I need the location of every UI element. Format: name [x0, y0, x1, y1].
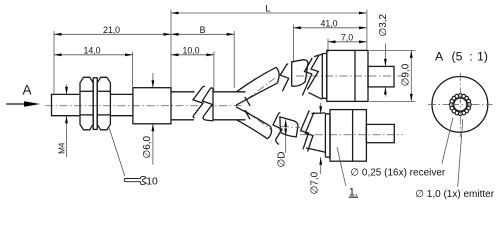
emitter circle	[454, 98, 467, 111]
svg-text:1.: 1.	[349, 187, 358, 199]
svg-text:7,0: 7,0	[341, 32, 353, 42]
svg-text:A: A	[22, 83, 31, 98]
lower branch centerline	[246, 111, 273, 131]
svg-text:B: B	[200, 25, 206, 35]
upper break zigzag d	[307, 56, 318, 90]
extension line x132.6	[132, 52, 134, 87]
upper connector inner line	[354, 50, 356, 101]
dimension DD	[276, 120, 287, 168]
svg-text:41,0: 41,0	[320, 19, 337, 29]
hex nut 1	[80, 77, 93, 130]
lower connector box	[330, 110, 366, 162]
upper cable piece	[292, 60, 308, 87]
upper break zigzag a	[280, 64, 289, 91]
svg-text:∅D: ∅D	[276, 152, 287, 168]
upper boot	[309, 54, 323, 99]
svg-text:10,0: 10,0	[182, 46, 199, 56]
receiver ring	[449, 94, 471, 116]
extension line x328 7,0	[327, 39, 329, 53]
dimension D6,0	[142, 73, 154, 165]
upper connector box	[327, 50, 368, 101]
svg-text:∅7,0: ∅7,0	[310, 171, 321, 194]
washer	[93, 78, 97, 130]
svg-text:∅9,0: ∅9,0	[401, 63, 412, 86]
dimension 7,0	[328, 32, 367, 43]
lower connector centerline	[300, 134, 403, 136]
svg-text:21,0: 21,0	[103, 25, 120, 35]
extension line x54	[53, 31, 55, 94]
leader 1.	[337, 147, 346, 186]
main horizontal centerline	[45, 105, 243, 107]
detail vertical centerline	[459, 73, 461, 137]
lower connector inner line	[352, 110, 354, 162]
Y-split upper tube	[236, 67, 279, 105]
svg-text:A: A	[435, 49, 444, 63]
svg-text:L: L	[265, 4, 270, 15]
emitter crosshair vertical	[459, 96, 461, 115]
extension line x171	[170, 10, 172, 88]
upper connector stub	[368, 66, 394, 87]
leader receiver	[442, 118, 453, 164]
lower boot	[306, 113, 325, 152]
svg-text:∅ 0,25 (16x) receiver: ∅ 0,25 (16x) receiver	[350, 168, 446, 179]
svg-text:(5: (5	[452, 49, 463, 63]
leader emitter	[458, 119, 463, 187]
boot end face	[212, 88, 214, 121]
svg-text:14,0: 14,0	[83, 46, 100, 56]
sensor body	[133, 88, 171, 124]
extension line x213.9	[213, 52, 215, 91]
dimension 21,0	[54, 25, 171, 36]
dimension 14,0	[54, 46, 133, 57]
upper break zigzag c	[302, 58, 312, 96]
front thread tube	[52, 94, 81, 115]
main cable tube right segment	[213, 92, 246, 120]
upper branch centerline	[246, 78, 275, 100]
svg-text::: :	[469, 49, 472, 63]
dimension D7,0	[310, 103, 323, 194]
dimension M4	[57, 85, 68, 158]
cable cut face lower	[245, 110, 250, 119]
hex nut 2	[97, 77, 110, 130]
upper connector lip	[322, 54, 327, 99]
Y-split lower tube	[236, 107, 272, 139]
upper connector centerline	[296, 75, 403, 77]
dimension L	[171, 4, 367, 15]
dimension 10,0	[171, 46, 214, 57]
extension line x366.9	[366, 10, 368, 50]
break 1 zigzag left	[193, 86, 205, 118]
dimension D3,2	[378, 13, 389, 96]
svg-text:∅6,0: ∅6,0	[142, 135, 153, 158]
dimension 41,0	[293, 19, 366, 30]
detail horizontal centerline	[428, 103, 493, 105]
lower break zigzag d	[305, 112, 314, 151]
leader wrench	[109, 128, 125, 177]
extension line x234.2	[233, 31, 235, 88]
svg-text:10: 10	[146, 176, 158, 187]
cable cut face upper	[245, 97, 250, 106]
svg-text:∅ 1,0 (1x) emitter: ∅ 1,0 (1x) emitter	[415, 189, 494, 200]
svg-text:1): 1)	[477, 49, 488, 63]
break 1 zigzag right	[202, 88, 213, 121]
emitter crosshair horizontal	[451, 104, 470, 106]
lower break zigzag a	[273, 113, 282, 145]
view arrow A	[6, 83, 40, 107]
svg-text:∅3,2: ∅3,2	[378, 13, 389, 36]
lower piece centerline	[281, 127, 300, 128]
lower connector stub	[366, 124, 394, 142]
lower connector lip	[325, 114, 330, 157]
wrench symbol	[124, 176, 146, 184]
break gap mask	[193, 88, 212, 120]
main cable tube left segment	[171, 92, 195, 120]
svg-text:M4: M4	[57, 142, 66, 154]
dimension D9,0	[370, 50, 416, 101]
extension line x293.4	[292, 25, 294, 63]
detail view big circle	[432, 77, 488, 133]
lower cable piece	[280, 117, 298, 137]
lower break zigzag c	[301, 110, 310, 149]
dimension B	[171, 25, 234, 36]
